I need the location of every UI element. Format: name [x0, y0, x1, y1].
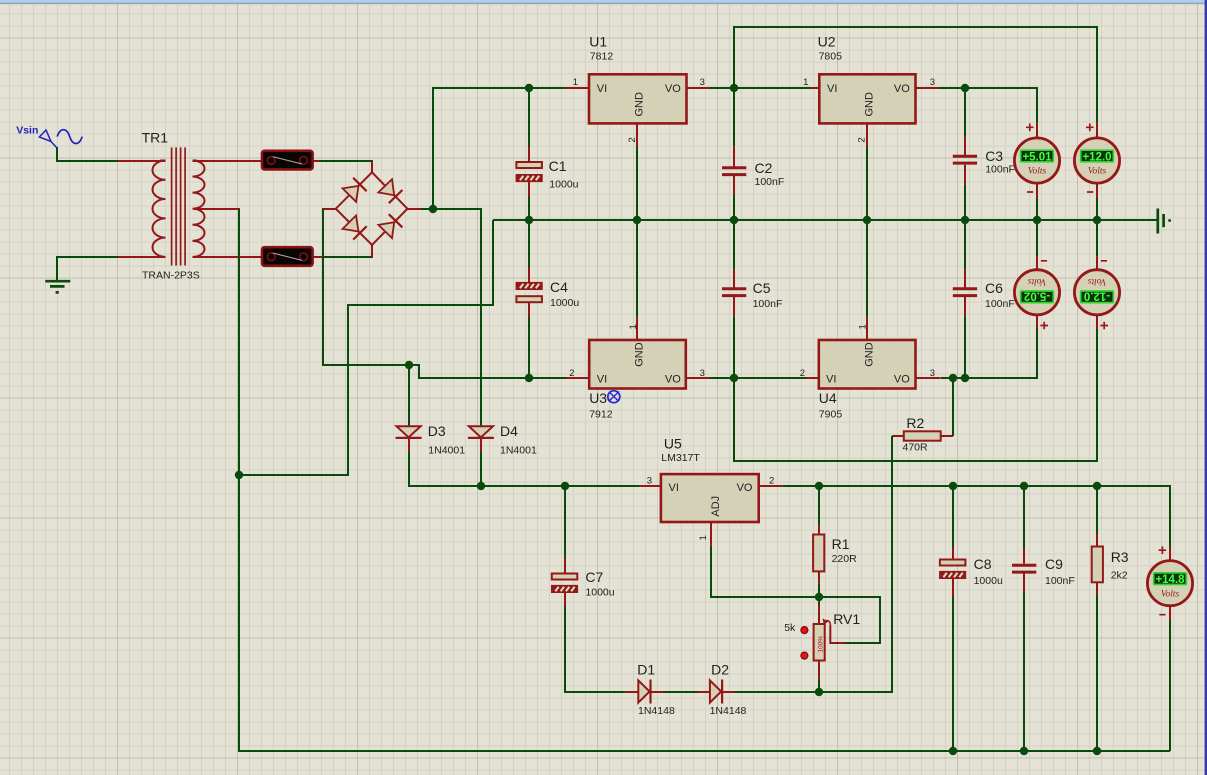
wire: top rail U1 output to meter PV2 [734, 27, 1097, 123]
svg-text:1N4148: 1N4148 [710, 705, 747, 717]
wire: C5 column [733, 220, 735, 378]
junction: U3 input row C4 [525, 374, 533, 382]
wire: C3 leads [964, 137, 966, 185]
svg-text:VO: VO [894, 83, 910, 95]
wire: D3 bottom lead [408, 439, 410, 452]
wire: U2 pin1 stub [810, 87, 819, 89]
svg-text:Volts: Volts [1087, 276, 1106, 286]
regulator U5 LM317T [647, 436, 775, 541]
regulator U4 7905 [800, 324, 935, 420]
junction: U2 VO node [961, 84, 969, 92]
svg-text:D3: D3 [428, 423, 446, 439]
wire: meter PV2 bottom lead [1096, 184, 1098, 199]
regulator U2 7805 [803, 34, 935, 143]
wire: U5 pin2 stub [759, 485, 783, 487]
capacitor C2 [722, 160, 784, 188]
junction: C9 top [1020, 482, 1028, 490]
svg-text:C8: C8 [974, 556, 992, 572]
svg-text:RV1: RV1 [833, 611, 860, 627]
wire: R1 bottom to RV1 top [818, 584, 820, 605]
capacitor C5 [722, 280, 782, 310]
wire: D1 to D2 [663, 691, 698, 693]
wire: ground bottom rail [239, 475, 1170, 751]
wire: C4 column [528, 220, 530, 378]
svg-text:R3: R3 [1111, 549, 1129, 565]
wire: C9 column [1023, 486, 1025, 751]
bridge diode D-LR [378, 214, 402, 238]
wire: D3/D4 cathodes to U5 VI [409, 452, 639, 487]
svg-text:1: 1 [698, 535, 709, 540]
svg-text:U1: U1 [589, 34, 607, 50]
resistor R3 [1092, 547, 1129, 583]
wire: transformer secondary top to fuse FU1 [193, 160, 263, 162]
svg-text:GND: GND [634, 92, 646, 117]
svg-text:1000u: 1000u [974, 575, 1003, 587]
junction: rail U2 GND [863, 216, 871, 224]
wire: R2 left column to diode row [735, 436, 893, 692]
wire: fuse FU1 right stub [312, 160, 320, 162]
wire: C9 leads [1023, 549, 1025, 592]
svg-text:VO: VO [737, 482, 753, 494]
right window edge [1205, 0, 1207, 775]
junction: U1 VO node [730, 84, 738, 92]
svg-text:3: 3 [700, 77, 705, 88]
wire: R3 bottom lead [1096, 582, 1098, 595]
svg-text:100nF: 100nF [755, 176, 785, 188]
wire: node 433 up to U1 VI row [433, 88, 565, 209]
wire: minus12 rail to meter PV4 [734, 329, 1097, 461]
wire: U3 pin3 stub [686, 377, 710, 379]
voltmeter PV4 -12.0 (rotated) [1074, 261, 1119, 330]
svg-text:D4: D4 [500, 423, 518, 439]
wire: R1 top lead [818, 525, 820, 535]
wire: meter PV3 bottom lead [1036, 315, 1038, 329]
wire: U1 pin2 GND stub [636, 123, 638, 147]
wire: center tap ground run [239, 209, 493, 475]
bridge rectifier diamond [336, 172, 408, 245]
wire: U3 input row step to U3 VI [409, 365, 566, 378]
wire: D4 bottom lead [480, 439, 482, 452]
wire: meter PV1 bottom lead [1036, 184, 1038, 199]
wire: bridge minus output down to U3 input row [323, 209, 409, 365]
wire: fuse FU2 to bridge AC bottom [324, 256, 372, 258]
svg-text:2: 2 [627, 137, 638, 142]
svg-text:100%: 100% [818, 636, 825, 653]
svg-text:220R: 220R [832, 553, 858, 565]
wire: RV1 bottom to diode row [818, 681, 820, 693]
svg-text:C1: C1 [549, 158, 567, 174]
wire: meter PV4 bottom lead [1096, 315, 1098, 329]
svg-text:VO: VO [665, 83, 681, 95]
ground (transformer primary) [45, 281, 70, 292]
wire: node 433 to D4 column [433, 209, 481, 426]
wire: R2 right stub [941, 435, 953, 437]
diode D4 [468, 423, 537, 457]
wire: ground rail [493, 219, 1157, 221]
wire: meter PV2 minus to rail [1096, 199, 1098, 221]
wire: U5 output row [782, 486, 1170, 547]
wire: bridge left pin stub [322, 208, 337, 210]
svg-text:-12.0: -12.0 [1084, 289, 1110, 301]
svg-text:VO: VO [665, 374, 681, 386]
regulator U1 7812 [573, 34, 705, 143]
svg-text:470R: 470R [903, 442, 929, 454]
wire: U3 pin1 GND stub [636, 317, 638, 340]
wire: fuse FU2 right stub [312, 256, 324, 258]
svg-text:1000u: 1000u [550, 297, 579, 309]
junction: rail meter PV3 [1033, 216, 1041, 224]
wire: fuse FU1 to bridge AC top [320, 160, 373, 162]
svg-text:U5: U5 [664, 436, 682, 452]
wire: meter PV1 minus to rail [1036, 199, 1038, 221]
capacitor C9 [1012, 556, 1075, 587]
wire: bridge right pin stub [406, 208, 421, 210]
wire: RV1 top lead [818, 605, 820, 625]
wire: U4 pin3 stub [916, 377, 941, 379]
wire: U1 pin3 stub [687, 87, 711, 89]
wire: C1 bottom lead [528, 182, 530, 197]
svg-text:+14.8: +14.8 [1155, 574, 1185, 586]
junction: rail meter PV4 [1093, 216, 1101, 224]
junction: U3 VO node [730, 374, 738, 382]
junction: rail U1 GND [633, 216, 641, 224]
svg-text:VI: VI [669, 482, 679, 494]
transformer TR1 [142, 130, 205, 282]
svg-text:C4: C4 [550, 279, 568, 295]
svg-text:C2: C2 [755, 160, 773, 176]
wire: transformer primary bottom pin [118, 256, 166, 258]
svg-text:Vsin: Vsin [16, 125, 38, 137]
wire: D2 left lead [698, 691, 710, 693]
junction: R1 bottom RV1 [815, 593, 823, 601]
svg-text:+5.01: +5.01 [1022, 151, 1052, 163]
junction: bottom rail R3 [1093, 747, 1101, 755]
junction: D4 bottom [477, 482, 485, 490]
svg-text:-5.02: -5.02 [1024, 289, 1050, 301]
junction: RV1 bottom diode row [815, 688, 823, 696]
wire: C7 column [565, 486, 625, 692]
diode D3 [396, 423, 466, 457]
svg-text:C3: C3 [985, 148, 1003, 164]
svg-text:100nF: 100nF [753, 298, 783, 310]
capacitor C1 [516, 158, 578, 191]
wire: U2 pin3 stub [916, 87, 940, 89]
svg-text:Volts: Volts [1088, 167, 1107, 177]
wire: U4 pin2 stub [806, 377, 819, 379]
wire: C8 leads [952, 547, 954, 596]
svg-text:TR1: TR1 [142, 130, 169, 146]
svg-text:C9: C9 [1045, 556, 1063, 572]
svg-text:7812: 7812 [590, 51, 614, 63]
junction: R1 top [815, 482, 823, 490]
svg-text:2: 2 [856, 137, 867, 142]
junction: rail C1 [525, 216, 533, 224]
wire: U1 VO to U2 VI [710, 87, 810, 89]
capacitor C8 [940, 556, 1003, 587]
wire: C7 leads [564, 558, 566, 607]
junction: C7 top [561, 482, 569, 490]
wire: Vsin source to transformer primary top [57, 147, 118, 161]
wire: RV1 wiper loop [819, 597, 880, 643]
junction: U4 VO node C6 [961, 374, 969, 382]
bridge diode D-UL [343, 178, 367, 202]
svg-text:D1: D1 [637, 662, 655, 678]
wire: C4 leads [528, 268, 530, 318]
svg-text:VO: VO [894, 374, 910, 386]
bridge diode D-UR [378, 179, 402, 203]
svg-text:3: 3 [930, 368, 935, 379]
svg-text:1: 1 [858, 324, 869, 329]
wire: U2 VO to meter PV1 [939, 88, 1037, 123]
bridge diode D-LL [343, 216, 367, 240]
wire: C8 column [952, 486, 954, 751]
svg-text:U4: U4 [819, 390, 837, 406]
wire: C6 leads [964, 269, 966, 317]
svg-text:Volts: Volts [1161, 589, 1180, 599]
wire: node 433 to bridge plus [421, 208, 433, 210]
wire: D4 top lead [480, 413, 482, 426]
diode D1 [637, 662, 675, 718]
wire: transformer primary top pin [118, 160, 166, 162]
fuse FU2 [262, 247, 313, 266]
svg-text:7805: 7805 [819, 51, 843, 63]
wire: meter PV5 top lead [1169, 547, 1171, 560]
svg-text:5k: 5k [784, 622, 796, 634]
junction: C1 top [525, 84, 533, 92]
wire: C1 column [528, 88, 530, 220]
svg-text:Volts: Volts [1027, 276, 1046, 286]
voltmeter PV3 -5.02 (rotated) [1014, 261, 1059, 330]
svg-text:3: 3 [700, 368, 705, 379]
capacitor C4 [516, 279, 579, 309]
svg-text:100nF: 100nF [985, 298, 1015, 310]
svg-text:GND: GND [634, 342, 646, 367]
svg-text:C7: C7 [585, 569, 603, 585]
junction: bottom rail C9 [1020, 747, 1028, 755]
wire: U5 pin3 stub [639, 485, 661, 487]
fuse FU1 [262, 151, 313, 170]
capacitor C7 [552, 569, 615, 599]
wire: meter PV1 top lead [1036, 123, 1038, 138]
wire: U3 pin2 stub [566, 377, 589, 379]
wire: meter PV5 minus to ground rail [1169, 620, 1171, 751]
svg-text:3: 3 [930, 77, 935, 88]
svg-text:1000u: 1000u [585, 587, 614, 599]
junction: D3 top node [405, 361, 413, 369]
svg-text:C5: C5 [753, 280, 771, 296]
voltmeter PV2 +12.0 [1074, 124, 1119, 193]
svg-text:100nF: 100nF [985, 164, 1015, 176]
resistor R1 [813, 535, 857, 572]
wire: C2 column [733, 88, 735, 220]
svg-text:VI: VI [597, 374, 607, 386]
wire: D1 right lead [651, 691, 663, 693]
svg-text:1N4148: 1N4148 [638, 705, 675, 717]
wire: U3 VO to U4 VI [710, 377, 806, 379]
wire: D1 left lead [625, 691, 638, 693]
svg-text:100nF: 100nF [1045, 575, 1075, 587]
wire: U5 pin1 ADJ stub [710, 522, 712, 546]
wire: D2 right lead [723, 691, 735, 693]
ground (rail right end) [1158, 209, 1170, 234]
svg-text:1N4001: 1N4001 [428, 445, 465, 457]
svg-text:R1: R1 [832, 536, 850, 552]
junction: bridge plus node [429, 205, 437, 213]
resistor R2 [903, 415, 941, 454]
junction: center tap corner [235, 471, 243, 479]
top window strip [0, 0, 1207, 3]
svg-text:1000u: 1000u [549, 179, 578, 191]
svg-text:C6: C6 [985, 280, 1003, 296]
wire: C3 column [964, 88, 966, 220]
wire: R3 top lead [1096, 534, 1098, 547]
wire: meter PV2 top lead [1096, 123, 1098, 138]
wire: R2 right to U4 VO row [952, 378, 954, 436]
svg-text:VI: VI [597, 83, 607, 95]
svg-text:GND: GND [864, 342, 876, 367]
wire: transformer primary bottom to ground [57, 257, 118, 281]
svg-text:U3: U3 [589, 390, 607, 406]
wire: R3 column [1096, 486, 1098, 751]
wire: C1 top lead [528, 147, 530, 163]
voltmeter PV5 +14.8 [1147, 546, 1192, 614]
wire: U2 GND to rail to U4 GND [866, 147, 868, 317]
svg-text:1N4001: 1N4001 [500, 445, 537, 457]
svg-text:1: 1 [628, 324, 639, 329]
svg-text:+12.0: +12.0 [1082, 151, 1111, 163]
wire: RV1 bottom lead [818, 661, 820, 681]
junction: bottom rail C8 [949, 747, 957, 755]
svg-text:7912: 7912 [589, 409, 613, 421]
wire: U4 VO row to meter PV3 [941, 329, 1037, 378]
junction: U4 VO node R2 [949, 374, 957, 382]
wire: bridge bottom pin stub [371, 244, 373, 258]
svg-text:VI: VI [827, 83, 837, 95]
wire: D3 column from U3 input row [408, 365, 410, 426]
svg-text:ADJ: ADJ [710, 496, 722, 517]
origin marker at U3 [608, 391, 620, 403]
wire: R1 bottom lead [818, 571, 820, 584]
wire: C5 leads [733, 269, 735, 317]
wire: meter PV5 bottom lead [1169, 607, 1171, 620]
svg-text:3: 3 [647, 475, 652, 486]
wire: meter PV3 top lead [1036, 256, 1038, 269]
svg-text:R2: R2 [906, 415, 924, 431]
voltmeter PV1 +5.01 [1014, 124, 1059, 193]
wire: U2 pin2 GND stub [866, 123, 868, 147]
svg-text:GND: GND [864, 92, 876, 117]
svg-text:TRAN-2P3S: TRAN-2P3S [142, 270, 200, 282]
diode D2 [710, 662, 747, 718]
junction: rail C2 [730, 216, 738, 224]
wire: U5 ADJ row [711, 546, 819, 597]
regulator U3 7912 [569, 324, 705, 420]
wire: RV1 wiper lead [830, 626, 845, 644]
svg-text:U2: U2 [818, 34, 836, 50]
wire: rail to meter PV4 [1096, 220, 1098, 256]
svg-text:2: 2 [769, 475, 774, 486]
wire: C2 leads [733, 147, 735, 195]
wire: R1 column top [818, 486, 820, 525]
capacitor C3 [953, 148, 1015, 176]
wire: D3 top lead [408, 413, 410, 426]
wire: transformer secondary bottom to fuse FU2 [193, 256, 263, 258]
svg-text:D2: D2 [711, 662, 729, 678]
wire: rail to meter PV3 [1036, 220, 1038, 256]
potentiometer RV1 [784, 611, 860, 661]
svg-text:1: 1 [803, 77, 808, 88]
svg-text:2: 2 [800, 368, 805, 379]
svg-text:LM317T: LM317T [661, 452, 700, 464]
junction: R3 top [1093, 482, 1101, 490]
wire: U1 GND to rail to U3 GND [636, 147, 638, 317]
capacitor C6 [953, 280, 1015, 310]
wire: C6 column [964, 220, 966, 378]
generator Vsin [16, 125, 82, 149]
wire: transformer center tap stub [194, 208, 240, 210]
junction: rail C3 [961, 216, 969, 224]
wire: bridge top pin stub [371, 160, 373, 173]
wire: U4 pin1 GND stub [866, 317, 868, 340]
wire: U1 pin1 stub [565, 87, 589, 89]
svg-text:1: 1 [573, 77, 578, 88]
svg-text:2k2: 2k2 [1111, 570, 1128, 582]
svg-text:VI: VI [826, 374, 836, 386]
svg-text:2: 2 [569, 368, 574, 379]
svg-text:Volts: Volts [1028, 167, 1047, 177]
junction: C8 top [949, 482, 957, 490]
wire: meter PV4 top lead [1096, 256, 1098, 269]
svg-text:7905: 7905 [819, 409, 843, 421]
wire: R2 left stub [892, 435, 904, 437]
